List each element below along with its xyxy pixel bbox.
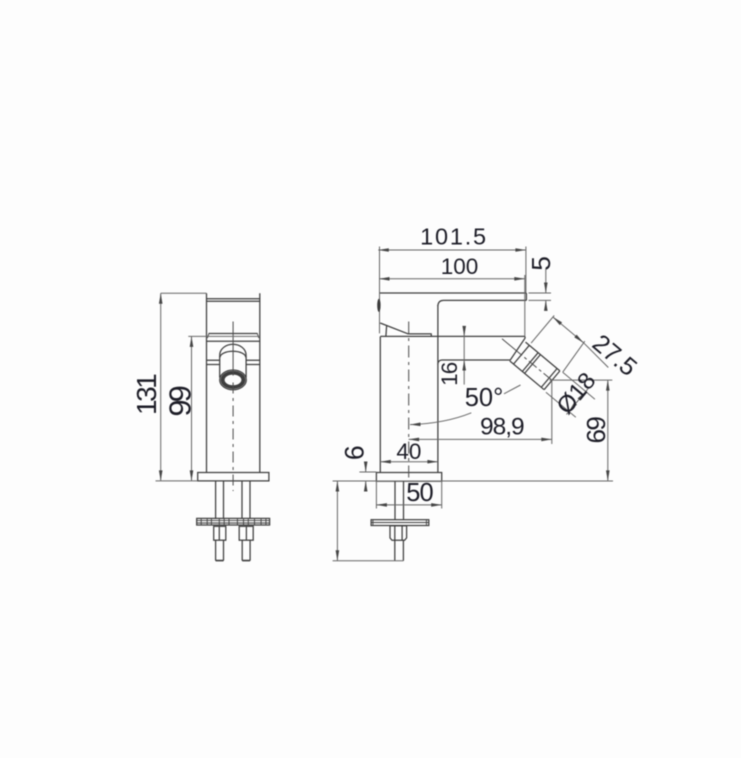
svg-text:99: 99 [163,386,198,416]
svg-text:50°: 50° [465,384,504,412]
svg-text:5: 5 [526,256,556,270]
svg-text:69: 69 [581,417,611,444]
svg-text:101.5: 101.5 [420,223,488,249]
svg-text:100: 100 [441,254,479,279]
svg-text:50: 50 [406,479,433,507]
svg-text:16: 16 [437,362,462,386]
svg-text:6: 6 [340,445,370,460]
svg-text:131: 131 [131,374,162,415]
svg-text:Ø18: Ø18 [552,368,602,420]
svg-text:27.5: 27.5 [587,329,642,382]
svg-text:40: 40 [396,439,421,464]
svg-text:98,9: 98,9 [480,413,524,440]
